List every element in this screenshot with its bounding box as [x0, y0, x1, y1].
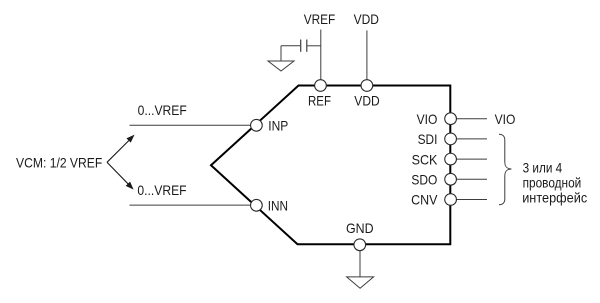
- svg-text:0...VREF: 0...VREF: [138, 102, 187, 118]
- svg-text:VDD: VDD: [354, 93, 379, 109]
- svg-text:VCM: 1/2 VREF: VCM: 1/2 VREF: [16, 155, 102, 171]
- svg-text:SCK: SCK: [412, 151, 438, 167]
- svg-text:VIO: VIO: [495, 111, 516, 127]
- svg-text:VIO: VIO: [417, 111, 438, 127]
- svg-text:SDI: SDI: [418, 131, 438, 147]
- svg-text:GND: GND: [346, 220, 374, 236]
- svg-text:интерфейс: интерфейс: [522, 189, 587, 205]
- svg-text:REF: REF: [308, 93, 331, 109]
- svg-text:INN: INN: [268, 198, 288, 214]
- svg-text:проводной: проводной: [523, 175, 582, 191]
- svg-text:VDD: VDD: [354, 11, 379, 27]
- svg-text:SDO: SDO: [411, 172, 437, 188]
- svg-text:3 или 4: 3 или 4: [523, 160, 563, 176]
- svg-text:CNV: CNV: [411, 192, 438, 208]
- svg-text:0...VREF: 0...VREF: [137, 182, 186, 198]
- svg-text:VREF: VREF: [304, 11, 336, 27]
- svg-text:INP: INP: [268, 117, 288, 133]
